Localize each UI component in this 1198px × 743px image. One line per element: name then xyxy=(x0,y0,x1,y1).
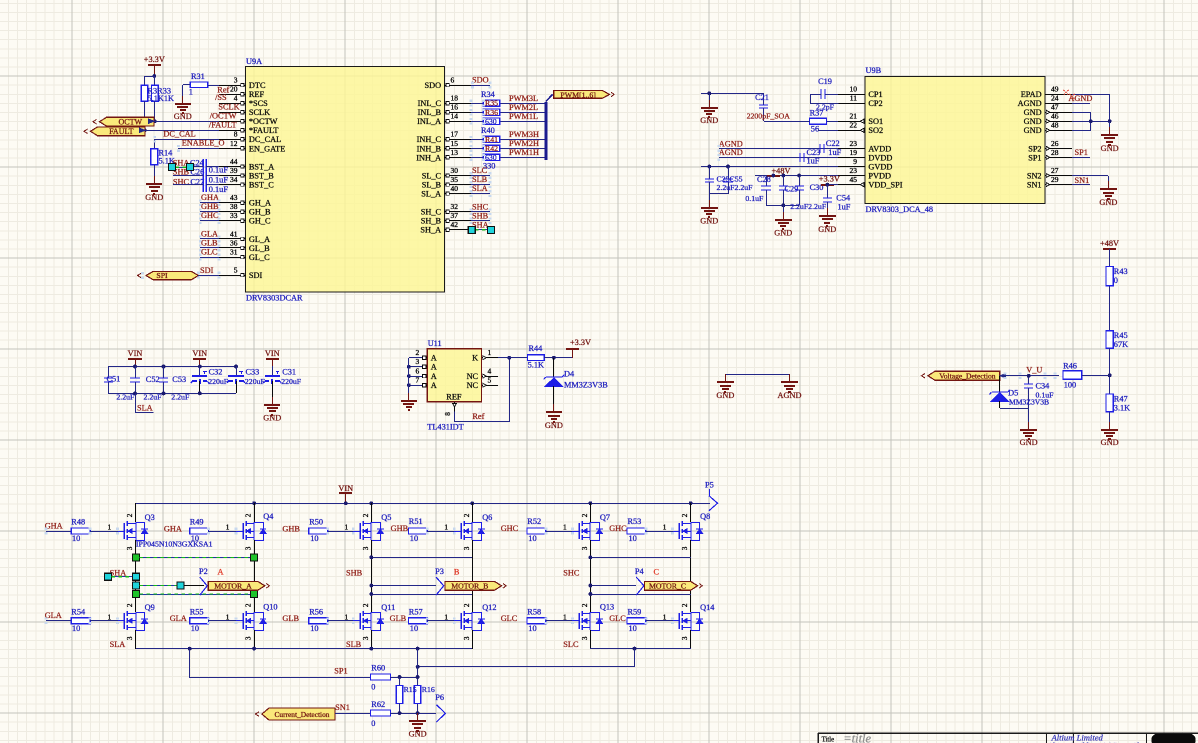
svg-text:C33: C33 xyxy=(246,368,260,377)
svg-text:35: 35 xyxy=(451,175,459,184)
svg-text:GND: GND xyxy=(1024,126,1042,135)
svg-text:C32: C32 xyxy=(209,368,223,377)
svg-text:28: 28 xyxy=(1051,148,1059,157)
svg-text:3: 3 xyxy=(581,636,589,640)
svg-text:1: 1 xyxy=(189,88,193,97)
svg-text:GND: GND xyxy=(700,116,718,125)
svg-text:R37: R37 xyxy=(810,109,824,118)
svg-text:GHC: GHC xyxy=(501,524,519,533)
svg-text:FAULT: FAULT xyxy=(109,127,134,136)
svg-text:5.1K1K: 5.1K1K xyxy=(148,94,175,103)
svg-text:REF: REF xyxy=(446,393,462,402)
svg-text:24: 24 xyxy=(1051,94,1059,103)
svg-text:2: 2 xyxy=(245,513,253,517)
svg-text:INL_C: INL_C xyxy=(418,99,442,108)
svg-text:SH_A: SH_A xyxy=(420,226,441,235)
svg-text:2.2uF: 2.2uF xyxy=(171,393,190,402)
svg-text:6: 6 xyxy=(416,367,420,376)
svg-text:U11: U11 xyxy=(428,339,442,348)
svg-text:EPAD: EPAD xyxy=(1021,90,1042,99)
svg-text:P5: P5 xyxy=(705,481,714,490)
svg-text:47: 47 xyxy=(1051,103,1059,112)
svg-text:3: 3 xyxy=(463,636,471,640)
svg-text:SCLK: SCLK xyxy=(249,108,270,117)
svg-text:SP1: SP1 xyxy=(334,667,347,676)
svg-text:DC_CAL: DC_CAL xyxy=(249,135,281,144)
svg-text:SLC: SLC xyxy=(563,640,579,649)
svg-text:1: 1 xyxy=(563,523,567,532)
svg-text:VIN: VIN xyxy=(338,484,353,493)
svg-text:GL_C: GL_C xyxy=(249,253,270,262)
svg-text:TL431IDT: TL431IDT xyxy=(427,422,463,431)
svg-text:B: B xyxy=(454,568,460,577)
svg-text:49: 49 xyxy=(1051,84,1059,93)
svg-text:GHC: GHC xyxy=(201,211,219,220)
svg-text:GLC: GLC xyxy=(501,614,518,623)
svg-text:R31: R31 xyxy=(191,72,205,81)
svg-text:R42: R42 xyxy=(485,144,498,153)
svg-text:1: 1 xyxy=(563,612,567,621)
svg-text:1: 1 xyxy=(108,612,112,621)
svg-text:MOTOR_B: MOTOR_B xyxy=(451,582,488,591)
svg-text:GH_C: GH_C xyxy=(249,217,271,226)
svg-text:SN1: SN1 xyxy=(335,703,350,712)
svg-text:37: 37 xyxy=(451,211,459,220)
svg-text:1: 1 xyxy=(663,612,667,621)
svg-text:SPI: SPI xyxy=(156,271,168,280)
svg-text:A: A xyxy=(431,354,437,363)
svg-text:REF: REF xyxy=(249,90,265,99)
svg-text:3: 3 xyxy=(362,546,370,550)
svg-text:23: 23 xyxy=(850,139,858,148)
svg-text:46: 46 xyxy=(1051,112,1059,121)
svg-text:3: 3 xyxy=(681,546,689,550)
svg-text:R48: R48 xyxy=(71,518,85,527)
svg-text:R53: R53 xyxy=(628,517,642,526)
svg-text:SDI: SDI xyxy=(249,271,263,280)
svg-text:2: 2 xyxy=(245,603,253,607)
svg-text:INL_B: INL_B xyxy=(418,108,442,117)
svg-text:SDI: SDI xyxy=(200,266,214,275)
svg-text:GLB: GLB xyxy=(201,238,218,247)
svg-text:R59: R59 xyxy=(628,607,642,616)
svg-text:R58: R58 xyxy=(527,607,541,616)
svg-text:SLA: SLA xyxy=(110,640,126,649)
svg-text:10: 10 xyxy=(629,534,637,543)
svg-text:Ref: Ref xyxy=(472,412,484,421)
svg-text:ENABLE_O: ENABLE_O xyxy=(182,139,225,148)
svg-text:C: C xyxy=(654,568,660,577)
svg-text:SN2: SN2 xyxy=(1027,171,1042,180)
svg-text:GND: GND xyxy=(774,228,792,237)
svg-text:R50: R50 xyxy=(309,518,323,527)
svg-text:R52: R52 xyxy=(527,517,541,526)
svg-text:R16: R16 xyxy=(422,685,435,694)
svg-text:SLA: SLA xyxy=(472,184,488,193)
svg-text:6: 6 xyxy=(451,75,455,84)
svg-text:SH_B: SH_B xyxy=(421,217,442,226)
svg-text:R41: R41 xyxy=(485,135,498,144)
svg-text:R54: R54 xyxy=(71,607,86,616)
svg-text:10: 10 xyxy=(72,624,80,633)
svg-text:GND: GND xyxy=(145,193,163,202)
svg-text:OCTW: OCTW xyxy=(119,118,143,127)
svg-text:13: 13 xyxy=(451,148,459,157)
svg-text:38: 38 xyxy=(230,202,238,211)
svg-text:1: 1 xyxy=(444,523,448,532)
svg-text:2200pF_SOA: 2200pF_SOA xyxy=(747,112,791,121)
svg-text:16: 16 xyxy=(451,103,459,112)
svg-text:BST_C: BST_C xyxy=(249,181,274,190)
svg-text:R51: R51 xyxy=(409,517,423,526)
svg-text:PWM3H: PWM3H xyxy=(509,130,539,139)
svg-text:Q8: Q8 xyxy=(700,512,710,521)
svg-text:20: 20 xyxy=(230,85,238,94)
svg-text:1: 1 xyxy=(108,523,112,532)
svg-text:GND: GND xyxy=(1024,108,1042,117)
svg-text:C53: C53 xyxy=(172,375,186,384)
svg-text:32: 32 xyxy=(451,202,459,211)
svg-text:1: 1 xyxy=(345,523,349,532)
svg-text:A: A xyxy=(218,568,224,577)
svg-text:D4: D4 xyxy=(564,370,575,379)
svg-text:3: 3 xyxy=(245,636,253,640)
svg-text:SP1: SP1 xyxy=(1028,153,1041,162)
svg-text:P2: P2 xyxy=(199,567,208,576)
svg-text:1: 1 xyxy=(663,523,667,532)
svg-text:23: 23 xyxy=(850,166,858,175)
svg-text:2: 2 xyxy=(581,513,589,517)
svg-text:PWM1L: PWM1L xyxy=(509,112,538,121)
svg-text:R62: R62 xyxy=(371,700,385,709)
svg-text:Q11: Q11 xyxy=(381,603,395,612)
svg-text:40: 40 xyxy=(451,184,459,193)
svg-text:AGND: AGND xyxy=(1068,94,1092,103)
svg-text:15: 15 xyxy=(451,139,459,148)
svg-text:3: 3 xyxy=(234,75,238,84)
svg-text:12: 12 xyxy=(230,139,238,148)
svg-text:AVDD: AVDD xyxy=(868,144,891,153)
svg-text:DTC: DTC xyxy=(249,81,266,90)
svg-text:39: 39 xyxy=(230,166,238,175)
svg-text:0: 0 xyxy=(371,683,375,692)
svg-text:SL_B: SL_B xyxy=(422,181,442,190)
svg-text:R46: R46 xyxy=(1063,362,1077,371)
svg-text:GND: GND xyxy=(1099,198,1117,207)
svg-text:3: 3 xyxy=(581,546,589,550)
svg-text:MM3Z3V3B: MM3Z3V3B xyxy=(1009,398,1049,407)
svg-text:2: 2 xyxy=(681,513,689,517)
svg-text:SHB: SHB xyxy=(472,211,489,220)
svg-text:Q3: Q3 xyxy=(145,513,155,522)
svg-text:D5: D5 xyxy=(1008,389,1018,398)
svg-text:V_U: V_U xyxy=(1026,366,1042,375)
svg-text:2: 2 xyxy=(463,603,471,607)
svg-text:GND: GND xyxy=(545,421,563,430)
svg-text:R49: R49 xyxy=(190,518,204,527)
svg-text:EN_GATE: EN_GATE xyxy=(249,144,285,153)
svg-text:36: 36 xyxy=(230,238,238,247)
svg-text:21: 21 xyxy=(850,112,858,121)
svg-text:GLA: GLA xyxy=(170,614,187,623)
svg-text:2: 2 xyxy=(581,603,589,607)
svg-text:P6: P6 xyxy=(435,693,444,702)
svg-text:SLB: SLB xyxy=(472,175,488,184)
svg-text:+3.3V: +3.3V xyxy=(819,175,840,184)
svg-text:31: 31 xyxy=(230,247,238,256)
svg-text:34: 34 xyxy=(230,175,238,184)
svg-text:100: 100 xyxy=(1064,380,1076,389)
svg-text:*FAULT: *FAULT xyxy=(249,126,279,135)
svg-text:GHA: GHA xyxy=(164,524,182,533)
svg-text:SHB: SHB xyxy=(346,569,363,578)
svg-text:0: 0 xyxy=(1114,276,1118,285)
svg-text:1: 1 xyxy=(488,348,492,357)
svg-text:NC: NC xyxy=(467,372,479,381)
svg-text:43: 43 xyxy=(230,193,238,202)
svg-text:VIN: VIN xyxy=(192,349,207,358)
svg-text:BST_B: BST_B xyxy=(249,171,274,180)
svg-text:630: 630 xyxy=(485,117,497,126)
svg-text:NC: NC xyxy=(467,381,479,390)
svg-text:5.1K: 5.1K xyxy=(528,361,544,370)
svg-text:INL_A: INL_A xyxy=(417,117,441,126)
svg-text:C52: C52 xyxy=(146,375,160,384)
svg-text:18: 18 xyxy=(451,94,459,103)
svg-text:SH_C: SH_C xyxy=(421,208,442,217)
svg-text:VDD_SPI: VDD_SPI xyxy=(868,181,902,190)
svg-text:C54: C54 xyxy=(836,193,851,202)
svg-text:10: 10 xyxy=(310,624,318,633)
svg-text:C29: C29 xyxy=(785,185,799,194)
svg-text:SO1: SO1 xyxy=(868,117,883,126)
svg-text:0.1uF: 0.1uF xyxy=(209,175,229,184)
svg-text:GHA: GHA xyxy=(201,193,219,202)
svg-text:3.1K: 3.1K xyxy=(1114,404,1130,413)
svg-text:56: 56 xyxy=(811,125,819,134)
svg-text:9: 9 xyxy=(853,157,857,166)
svg-text:Q13: Q13 xyxy=(600,602,614,611)
svg-text:SLA: SLA xyxy=(137,403,153,412)
svg-text:2: 2 xyxy=(416,348,420,357)
svg-text:2: 2 xyxy=(126,603,134,607)
svg-text:Q5: Q5 xyxy=(381,513,391,522)
svg-text:PWM[1..6]: PWM[1..6] xyxy=(560,90,596,99)
svg-text:SHC: SHC xyxy=(563,569,580,578)
svg-text:67K: 67K xyxy=(1114,340,1128,349)
svg-text:Q12: Q12 xyxy=(482,603,496,612)
svg-text:4: 4 xyxy=(488,367,492,376)
svg-text:GND: GND xyxy=(1020,438,1038,447)
svg-text:+48V: +48V xyxy=(1100,239,1119,248)
svg-text:GLC: GLC xyxy=(201,247,218,256)
svg-text:VIN: VIN xyxy=(128,349,143,358)
svg-text:R55: R55 xyxy=(190,607,204,616)
svg-text:U9A: U9A xyxy=(246,57,262,66)
svg-text:MOTOR_A: MOTOR_A xyxy=(214,582,252,591)
svg-text:GND: GND xyxy=(1101,438,1119,447)
svg-text:GND: GND xyxy=(716,391,734,400)
svg-text:CP1: CP1 xyxy=(868,90,882,99)
svg-text:GLC: GLC xyxy=(609,614,626,623)
svg-text:1uF: 1uF xyxy=(838,202,851,211)
svg-text:Voltage_Detection: Voltage_Detection xyxy=(939,372,996,381)
svg-text:=title: =title xyxy=(843,732,871,743)
svg-text:3: 3 xyxy=(463,546,471,550)
svg-text:DRV8303DCAR: DRV8303DCAR xyxy=(246,294,303,303)
svg-text:PWM2L: PWM2L xyxy=(509,103,538,112)
svg-text:SDO: SDO xyxy=(424,81,441,90)
svg-text:+3.3V: +3.3V xyxy=(144,55,165,64)
svg-text:C19: C19 xyxy=(818,77,832,86)
svg-text:2: 2 xyxy=(463,513,471,517)
svg-text:DVDD: DVDD xyxy=(868,153,892,162)
svg-text:10: 10 xyxy=(410,624,418,633)
svg-text:SP1: SP1 xyxy=(1075,148,1088,157)
svg-text:GND: GND xyxy=(263,414,281,423)
svg-text:2: 2 xyxy=(362,513,370,517)
svg-text:U9B: U9B xyxy=(866,66,882,75)
svg-text:GH_A: GH_A xyxy=(249,199,271,208)
svg-text:R60: R60 xyxy=(371,664,385,673)
svg-text:/FAULT: /FAULT xyxy=(209,121,237,130)
svg-text:R47: R47 xyxy=(1114,395,1128,404)
svg-text:Q4: Q4 xyxy=(263,512,274,521)
svg-text:GVDD: GVDD xyxy=(868,162,892,171)
svg-text:41: 41 xyxy=(230,229,238,238)
svg-text:PWM2H: PWM2H xyxy=(509,139,539,148)
svg-text:R15: R15 xyxy=(404,685,417,694)
svg-text:2.2uF: 2.2uF xyxy=(116,393,135,402)
svg-text:2.2uF: 2.2uF xyxy=(144,393,163,402)
svg-text:INH_B: INH_B xyxy=(417,144,442,153)
svg-text:8: 8 xyxy=(234,130,238,139)
svg-text:4: 4 xyxy=(234,94,238,103)
svg-text:3: 3 xyxy=(416,357,420,366)
svg-text:27: 27 xyxy=(1051,166,1059,175)
svg-text:GL_A: GL_A xyxy=(249,235,270,244)
svg-text:C22: C22 xyxy=(826,139,840,148)
svg-text:10: 10 xyxy=(629,624,637,633)
svg-text:2.2uF2.2uF: 2.2uF2.2uF xyxy=(790,202,827,211)
svg-text:1: 1 xyxy=(345,612,349,621)
svg-text:3: 3 xyxy=(245,546,253,550)
svg-text:C28: C28 xyxy=(757,175,771,184)
svg-text:SDO: SDO xyxy=(472,76,489,85)
svg-text:30: 30 xyxy=(451,166,459,175)
svg-text:29: 29 xyxy=(1051,175,1059,184)
svg-text:22: 22 xyxy=(850,121,858,130)
svg-text:GND: GND xyxy=(700,216,718,225)
svg-text:44: 44 xyxy=(230,157,238,166)
svg-text:GND: GND xyxy=(409,730,427,739)
svg-text:SHC: SHC xyxy=(173,177,190,186)
svg-text:2: 2 xyxy=(126,513,134,517)
svg-text:SN1: SN1 xyxy=(1027,181,1042,190)
svg-text:3: 3 xyxy=(126,546,134,550)
svg-text:PWM1H: PWM1H xyxy=(509,148,539,157)
svg-text:GND: GND xyxy=(174,112,192,121)
svg-text:AGND: AGND xyxy=(719,148,743,157)
svg-text:R57: R57 xyxy=(409,607,423,616)
svg-text:*OCTW: *OCTW xyxy=(249,117,278,126)
svg-text:5: 5 xyxy=(234,266,238,275)
svg-text:GHB: GHB xyxy=(391,524,409,533)
svg-text:SO2: SO2 xyxy=(868,126,883,135)
svg-text:10: 10 xyxy=(410,534,418,543)
svg-text:SP2: SP2 xyxy=(1028,144,1041,153)
svg-text:10: 10 xyxy=(191,624,199,633)
svg-text:SHC: SHC xyxy=(472,202,489,211)
svg-text:10: 10 xyxy=(850,84,858,93)
svg-text:GLB: GLB xyxy=(390,614,407,623)
svg-text:K: K xyxy=(472,354,478,363)
svg-text:GND: GND xyxy=(1024,117,1042,126)
svg-text:17: 17 xyxy=(451,130,459,139)
svg-text:10: 10 xyxy=(528,534,536,543)
svg-text:GHB: GHB xyxy=(282,524,300,533)
svg-text:SLB: SLB xyxy=(346,640,362,649)
svg-text:GH_B: GH_B xyxy=(249,208,271,217)
svg-text:220uF: 220uF xyxy=(281,377,302,386)
svg-text:P4: P4 xyxy=(635,567,645,576)
svg-text:A: A xyxy=(431,363,437,372)
svg-text:MOTOR_C: MOTOR_C xyxy=(649,582,686,591)
svg-text:42: 42 xyxy=(451,220,459,229)
svg-text:CP2: CP2 xyxy=(868,99,882,108)
svg-text:Q10: Q10 xyxy=(263,602,277,611)
svg-text:C21: C21 xyxy=(755,93,769,102)
svg-text:10: 10 xyxy=(72,534,80,543)
svg-text:INH_A: INH_A xyxy=(416,153,441,162)
svg-text:DC_CAL: DC_CAL xyxy=(163,130,195,139)
svg-text:C51: C51 xyxy=(107,375,121,384)
svg-text:5: 5 xyxy=(488,376,492,385)
svg-text:GND: GND xyxy=(818,225,836,234)
svg-text:2: 2 xyxy=(362,603,370,607)
svg-text:SL_A: SL_A xyxy=(421,190,441,199)
svg-text:C27: C27 xyxy=(190,177,204,186)
svg-text:R43: R43 xyxy=(1114,267,1128,276)
svg-text:Q9: Q9 xyxy=(145,603,155,612)
svg-text:C34: C34 xyxy=(1036,382,1051,391)
svg-text:/OCTW: /OCTW xyxy=(210,111,237,120)
svg-text:2: 2 xyxy=(681,603,689,607)
svg-text:3: 3 xyxy=(362,636,370,640)
svg-text:BST_A: BST_A xyxy=(249,162,274,171)
svg-text:+3.3V: +3.3V xyxy=(570,338,591,347)
svg-text:1: 1 xyxy=(226,523,230,532)
svg-text:33: 33 xyxy=(230,211,238,220)
svg-text:R40: R40 xyxy=(481,126,495,135)
svg-text:220uF: 220uF xyxy=(208,377,229,386)
svg-text:Q6: Q6 xyxy=(482,513,492,522)
svg-text:SLC: SLC xyxy=(472,166,488,175)
svg-text:A: A xyxy=(431,381,437,390)
svg-text:MM3Z3V3B: MM3Z3V3B xyxy=(564,380,608,389)
svg-text:19: 19 xyxy=(850,148,858,157)
svg-text:0: 0 xyxy=(371,719,375,728)
svg-text:0.1uF: 0.1uF xyxy=(745,194,764,203)
svg-text:/SS: /SS xyxy=(215,93,227,102)
svg-text:C31: C31 xyxy=(282,368,296,377)
svg-text:AGND: AGND xyxy=(1018,99,1042,108)
svg-text:14: 14 xyxy=(451,112,459,121)
svg-text:48: 48 xyxy=(1051,121,1059,130)
svg-text:26: 26 xyxy=(1051,139,1059,148)
svg-text:AGND: AGND xyxy=(778,391,802,400)
svg-text:10: 10 xyxy=(310,534,318,543)
